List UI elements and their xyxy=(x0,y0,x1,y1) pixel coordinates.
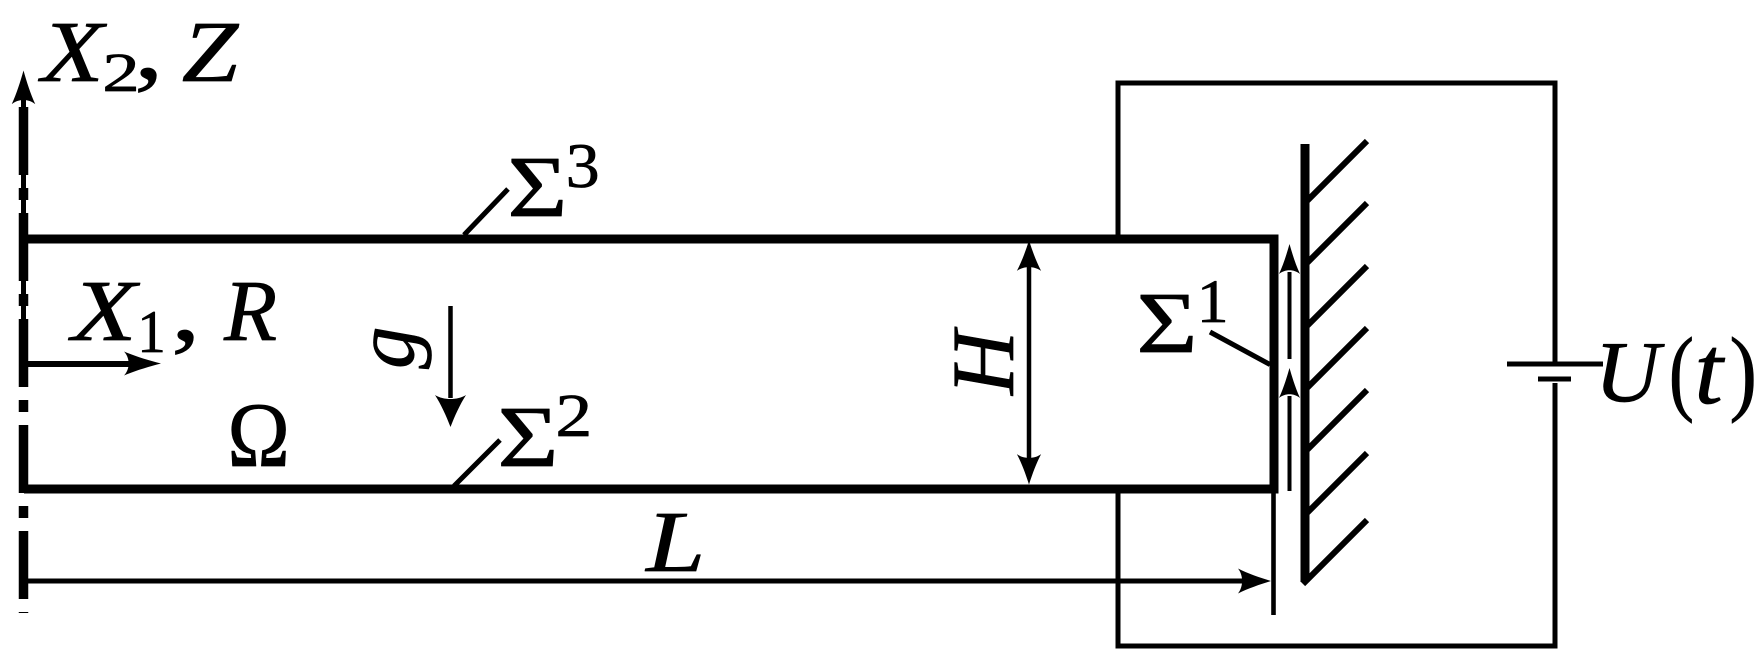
svg-text:X: X xyxy=(67,263,140,359)
svg-text:H: H xyxy=(935,326,1033,396)
svg-text:Σ: Σ xyxy=(1136,274,1197,370)
svg-text:Σ: Σ xyxy=(507,139,567,236)
svg-text:2: 2 xyxy=(555,382,592,450)
svg-text:1: 1 xyxy=(137,299,166,366)
H dimension arrowhead bottom xyxy=(1017,454,1041,484)
gravity g arrowhead xyxy=(435,395,466,427)
gravity g arrow shaft xyxy=(448,306,453,398)
L dimension arrowhead xyxy=(1238,569,1271,594)
svg-text:L: L xyxy=(644,494,705,591)
axis dash-dot center line xyxy=(19,107,29,613)
svg-text:,: , xyxy=(171,256,201,361)
beam domain Omega (white fill, thick outline, open left end) xyxy=(24,239,1274,489)
battery short plate xyxy=(1538,377,1571,382)
Sigma1 leader line xyxy=(1210,332,1270,365)
svg-text:U: U xyxy=(1595,324,1665,420)
svg-text:(: ( xyxy=(1669,318,1694,424)
H dimension double arrow shaft xyxy=(1027,266,1032,460)
svg-text:Z: Z xyxy=(182,5,240,101)
wall hatch 1 xyxy=(1307,141,1367,201)
svg-text:Ω: Ω xyxy=(227,385,290,487)
svg-text:): ) xyxy=(1729,319,1757,424)
X1 axis arrowhead xyxy=(124,352,161,376)
svg-text:Σ: Σ xyxy=(497,388,558,484)
Sigma2 leader line xyxy=(454,440,500,486)
circuit loop wire (box) with gap for battery on right edge xyxy=(1118,83,1555,646)
wall line xyxy=(1301,144,1310,582)
svg-text:,: , xyxy=(134,0,164,99)
wall hatch 7 xyxy=(1303,520,1367,584)
svg-text:3: 3 xyxy=(566,132,600,201)
X2 axis arrowhead xyxy=(12,71,36,105)
X1 axis arrow shaft xyxy=(24,361,132,367)
electrode arrow upper : shaft xyxy=(1288,272,1292,359)
electrode arrow lower : shaft xyxy=(1288,396,1292,491)
X2 axis arrow shaft xyxy=(21,100,26,363)
electrode arrow upper : head xyxy=(1279,244,1300,274)
wall hatch 5 xyxy=(1307,390,1367,450)
electrode arrow lower : head xyxy=(1279,368,1300,398)
svg-text:g: g xyxy=(339,327,433,370)
svg-text:R: R xyxy=(223,262,277,359)
wall hatch 4 xyxy=(1307,328,1367,388)
L dimension line xyxy=(24,579,1245,584)
battery long plate xyxy=(1507,362,1603,367)
svg-text:X: X xyxy=(37,5,107,101)
wall hatch 2 xyxy=(1307,203,1367,263)
L dimension extension line at beam end xyxy=(1271,493,1276,615)
wall hatch 6 xyxy=(1307,453,1367,513)
svg-text:t: t xyxy=(1694,317,1725,425)
svg-text:1: 1 xyxy=(1197,268,1229,335)
wall hatch 3 xyxy=(1307,266,1367,326)
H dimension arrowhead top xyxy=(1017,241,1041,271)
Sigma3 leader line xyxy=(464,189,508,235)
